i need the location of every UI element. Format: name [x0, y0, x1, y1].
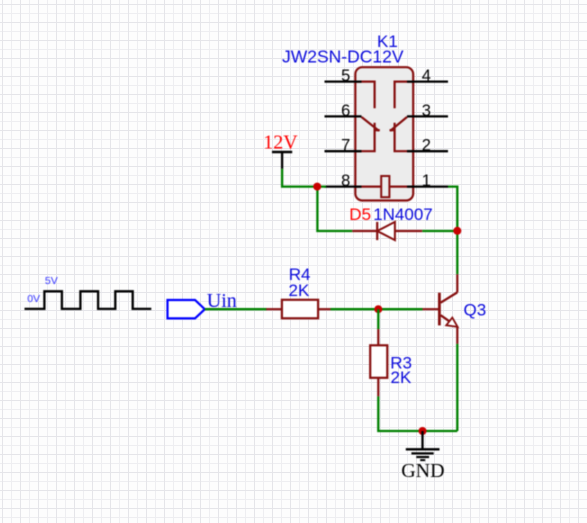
- svg-text:JW2SN-DC12V: JW2SN-DC12V: [282, 47, 404, 67]
- svg-text:6: 6: [341, 102, 350, 120]
- svg-text:2K: 2K: [289, 281, 310, 300]
- svg-text:12V: 12V: [263, 131, 298, 153]
- svg-text:5V: 5V: [45, 275, 58, 287]
- relay pin 4: [407, 67, 448, 85]
- svg-text:5: 5: [341, 67, 350, 85]
- junction dot D: [419, 427, 427, 435]
- resistor R3: [370, 329, 387, 396]
- wire diode anode to collector net: [422, 230, 457, 232]
- svg-text:1: 1: [422, 172, 431, 190]
- svg-text:8: 8: [341, 172, 350, 190]
- junction dot A: [313, 183, 321, 191]
- wire to collector: [456, 231, 458, 274]
- waveform annotation: [25, 275, 152, 309]
- transistor Q3: [423, 274, 458, 344]
- power port 12V: [263, 131, 298, 168]
- ground GND: [406, 431, 440, 460]
- relay pin 8: [325, 172, 362, 190]
- svg-text:Q3: Q3: [464, 301, 487, 320]
- svg-text:2K: 2K: [391, 368, 412, 387]
- wire junction down to diode row: [317, 187, 352, 231]
- relay pin 5: [325, 67, 362, 85]
- relay K1 contact pole left (pins 5,6,7): [355, 82, 380, 152]
- port Uin: [168, 290, 237, 319]
- svg-text:1N4007: 1N4007: [373, 205, 433, 224]
- wire emitter down: [456, 344, 458, 431]
- relay pin 1: [407, 172, 448, 190]
- diode D5: [352, 222, 422, 240]
- wire 12V to pin8: [282, 169, 326, 187]
- wire junction down to R3: [377, 309, 379, 329]
- relay pin 2: [407, 137, 448, 155]
- wire R3 to ground rail: [378, 396, 457, 431]
- svg-text:4: 4: [422, 67, 431, 85]
- relay pin 3: [407, 102, 448, 120]
- junction dot B: [453, 227, 461, 235]
- relay pin 6: [325, 102, 362, 120]
- junction dot C: [374, 305, 382, 313]
- relay K1 coil: [355, 176, 413, 197]
- svg-text:3: 3: [422, 102, 431, 120]
- wire pin1 down right side: [448, 187, 457, 231]
- svg-text:2: 2: [422, 137, 431, 155]
- relay K1 body: [355, 67, 413, 200]
- svg-text:7: 7: [341, 137, 350, 155]
- relay K1 contact pole right (pins 4,3,2): [390, 82, 414, 152]
- svg-text:D5: D5: [349, 205, 371, 224]
- resistor R4: [266, 300, 330, 319]
- relay pin 7: [325, 137, 362, 155]
- svg-text:0V: 0V: [27, 293, 40, 305]
- svg-text:GND: GND: [401, 460, 444, 482]
- wire port to R4: [205, 308, 267, 310]
- wire R4 to base: [331, 308, 423, 310]
